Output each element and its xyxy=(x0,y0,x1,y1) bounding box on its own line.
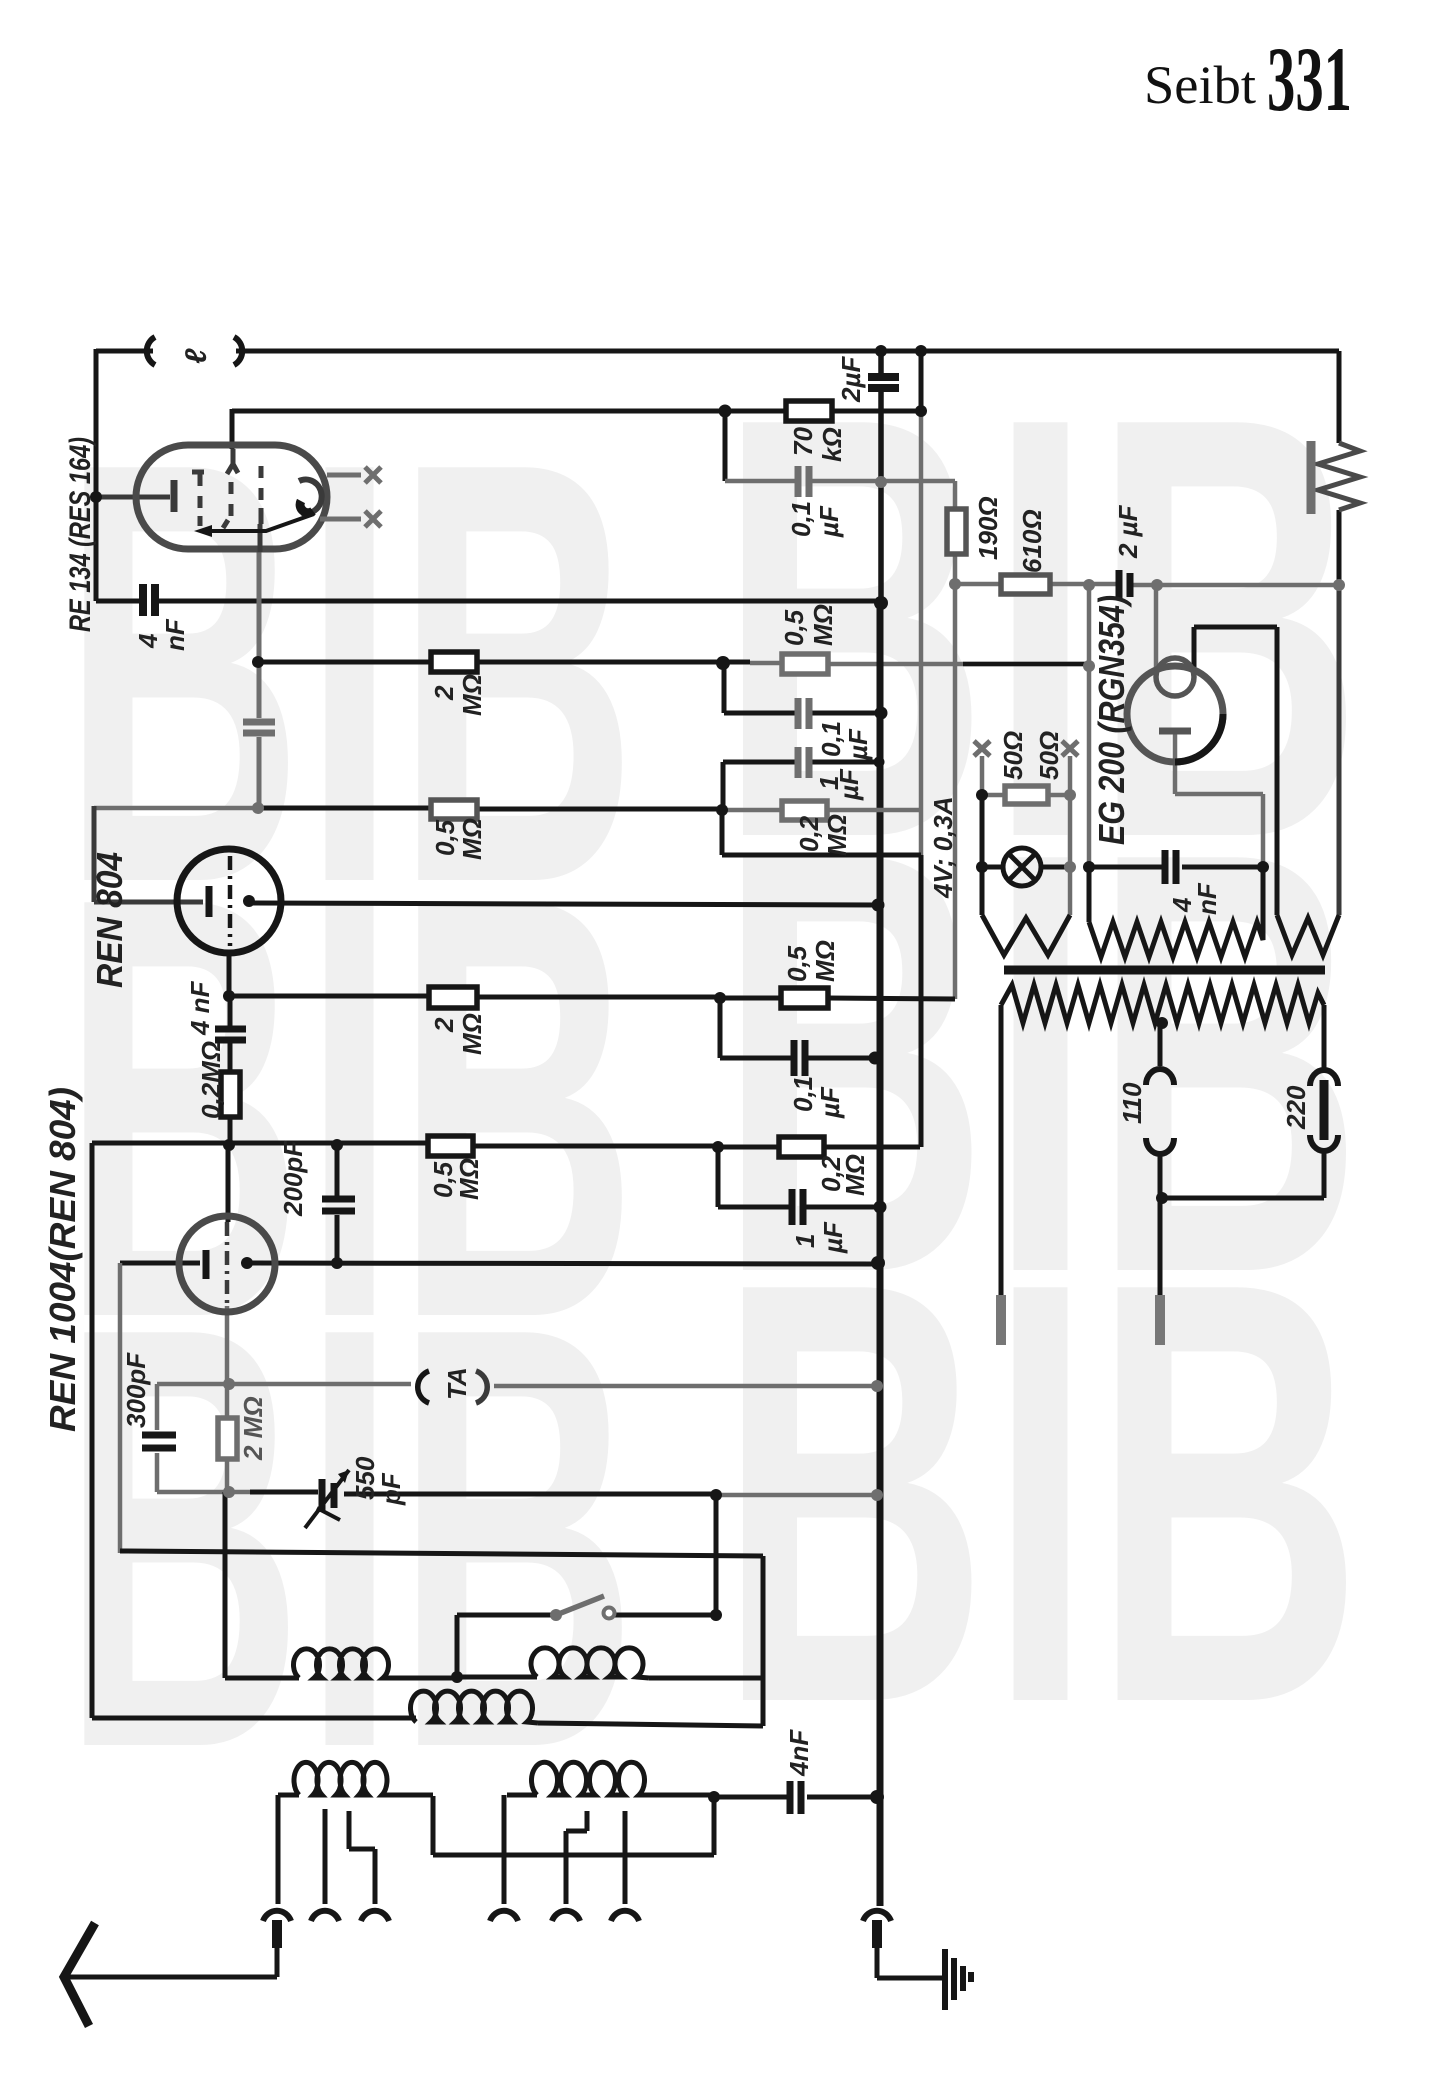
RE134 grid 3 dashed xyxy=(260,466,261,552)
X pin mark upper xyxy=(365,467,381,483)
wire 220 branch x=1324 xyxy=(1322,1005,1327,1068)
resistor 0.5M box row1146 xyxy=(428,1136,473,1156)
wire antenna coupling row y=1722 xyxy=(92,1143,416,1718)
svg-text:2µF: 2µF xyxy=(836,356,866,403)
wire 300pF branch x=157 gray xyxy=(155,1384,160,1492)
svg-text:µF: µF xyxy=(818,1221,848,1254)
wire left vertical x=96 xyxy=(94,349,99,601)
wire grid row RE134 y=411 xyxy=(232,409,921,414)
speaker resistor zigzag top right xyxy=(1318,443,1360,510)
svg-text:0,1: 0,1 xyxy=(786,501,816,537)
wire branch x=720 xyxy=(718,998,723,1058)
EG200 anode bar xyxy=(1159,728,1191,735)
plug 110 top arc xyxy=(1146,1069,1174,1085)
svg-text:MΩ: MΩ xyxy=(457,1013,487,1055)
watermark BIB background xyxy=(62,293,1363,1873)
transformer core bar xyxy=(1004,966,1325,975)
capacitor 0.1uF upper plates xyxy=(798,466,809,497)
svg-text:µF: µF xyxy=(843,728,873,761)
svg-text:µF: µF xyxy=(834,768,864,801)
svg-text:50Ω: 50Ω xyxy=(1034,731,1064,780)
right shunt zigzag xyxy=(1277,915,1339,955)
svg-text:TA: TA xyxy=(442,1367,472,1400)
wire lamp row y=867 xyxy=(982,865,1070,870)
wire screen vertical x=258 gray xyxy=(257,549,262,806)
osc coil right xyxy=(531,1648,649,1678)
svg-text:ℓ: ℓ xyxy=(180,348,213,364)
wire 0.1uF lower row y=1058 xyxy=(720,1056,875,1061)
resistor 2M box row662 xyxy=(431,652,477,672)
svg-text:MΩ: MΩ xyxy=(840,1154,870,1196)
REN804 grid dash-dot xyxy=(228,856,233,946)
wire REN1004 anode row y=1263 xyxy=(249,1263,878,1264)
capacitor 0.1uF lower plates xyxy=(794,1040,805,1076)
transformer primary zigzag xyxy=(1001,985,1324,1023)
resistor 190 box xyxy=(947,509,966,554)
antenna plug pin xyxy=(272,1920,282,1948)
wire 110 to junction xyxy=(1158,1153,1163,1198)
wire grid-leak row y=808 gray left xyxy=(94,806,258,811)
wire HT bus thick x=880 xyxy=(877,604,884,1906)
wire x=921 vertical xyxy=(919,351,924,412)
svg-text:1: 1 xyxy=(790,1234,820,1248)
wire 0.1uF upper row y=481 xyxy=(725,479,955,484)
tube REN804 envelope xyxy=(177,849,281,953)
svg-text:BIB: BIB xyxy=(62,1203,637,1873)
wire EG200 heater left lead x=1156 xyxy=(1154,585,1159,668)
wire x=722 branch xyxy=(720,810,725,855)
tube REN1004 envelope xyxy=(179,1216,275,1312)
wire RE134 grid lead x=232 xyxy=(230,409,235,449)
svg-text:REN 804: REN 804 xyxy=(89,852,130,988)
RE134 anode hook xyxy=(299,479,322,513)
wire switch row y=1615 xyxy=(457,1495,716,1677)
wire REN1004 grid bottom x=227 gray xyxy=(225,1306,230,1384)
wire x=1089 vertical gray xyxy=(1087,585,1092,867)
svg-text:µF: µF xyxy=(814,505,844,538)
capacitor 1uF upper plates xyxy=(798,747,809,778)
wire 4nF row y=601 xyxy=(96,599,881,604)
REN804 cathode bar xyxy=(206,886,213,917)
X pin mark lower xyxy=(365,511,381,527)
svg-text:2 µF: 2 µF xyxy=(1113,504,1143,559)
svg-text:4 nF: 4 nF xyxy=(185,980,215,1036)
svg-text:MΩ: MΩ xyxy=(457,818,487,860)
wire x=921 vertical low xyxy=(919,855,924,1147)
wire antenna lead xyxy=(66,1946,277,1977)
resistor 2M box row997 xyxy=(429,987,477,1008)
svg-text:2 MΩ: 2 MΩ xyxy=(238,1396,268,1461)
wire EG200 anode lead xyxy=(1175,733,1263,867)
wire mains mid terminal xyxy=(1158,1198,1163,1300)
wire osc coil row y=1678 xyxy=(225,1492,763,1678)
REN1004 anode dot xyxy=(241,1257,253,1269)
svg-text:2: 2 xyxy=(429,1017,459,1033)
tube name labels xyxy=(42,437,1132,1432)
antenna coil right xyxy=(532,1762,654,1795)
resistor 2M vertical box gray xyxy=(218,1418,237,1459)
resistor 0.5M box row808 xyxy=(431,800,477,819)
wire tuning row y=1493 xyxy=(157,1490,250,1495)
variable capacitor 550pF plates xyxy=(322,1479,334,1512)
svg-text:50Ω: 50Ω xyxy=(998,731,1028,780)
svg-text:0,2MΩ: 0,2MΩ xyxy=(196,1041,226,1119)
svg-text:0,1: 0,1 xyxy=(788,1076,818,1112)
wire 0.1uF mid row y=713 xyxy=(724,711,795,716)
svg-text:200pF: 200pF xyxy=(278,1140,308,1217)
resistor 0.2M vertical box xyxy=(221,1072,240,1117)
wire heater row y=855 xyxy=(722,853,921,858)
wire top right corner x=1339 xyxy=(1337,351,1342,585)
X mark 50ohm right xyxy=(1062,741,1078,756)
plug 110 bottom arc xyxy=(1146,1138,1174,1154)
EG200 heater loop xyxy=(1156,658,1194,696)
antenna input coupler arcs xyxy=(147,337,155,365)
wire 4nF EG row y=867 xyxy=(1089,865,1263,870)
capacitor 4nF RE134 plates xyxy=(143,584,155,616)
wire REN1004 cathode y=1263 xyxy=(120,1261,200,1266)
REN1004 grid dash-dot xyxy=(225,1222,230,1306)
wire 1uF upper row y=762 xyxy=(723,760,879,765)
wire 190ohm vertical x=955 xyxy=(953,481,958,999)
capacitor 2uF right plates xyxy=(1119,570,1130,600)
wire coil taps xyxy=(325,1795,625,1904)
wire 2M grid leak leads x=227 gray xyxy=(225,1384,230,1492)
REN1004 cathode bar xyxy=(203,1250,210,1279)
antenna coil left xyxy=(294,1762,393,1795)
RE134 cathode bar xyxy=(171,480,178,512)
wire 1uF branch x=723 xyxy=(721,762,726,810)
wire EG200 heater right loop xyxy=(1194,627,1277,915)
wire 0.2M row y=810 gray xyxy=(722,808,920,813)
tube EG200 envelope xyxy=(1127,666,1223,762)
svg-text:REN 1004(REN 804): REN 1004(REN 804) xyxy=(42,1087,83,1432)
title Seibt 331 xyxy=(1144,28,1352,130)
svg-text:300pF: 300pF xyxy=(121,1352,151,1428)
svg-text:610Ω: 610Ω xyxy=(1017,509,1047,573)
wire REN804 grid lead x=229 xyxy=(227,953,232,996)
wire 2M row gray part y=663 xyxy=(750,663,1089,664)
wire x=921 vertical gray mid xyxy=(919,412,924,855)
svg-text:MΩ: MΩ xyxy=(810,940,840,982)
resistor 0.2M box row1147 xyxy=(779,1137,824,1157)
svg-text:0,5: 0,5 xyxy=(430,819,460,856)
resistor 610 box xyxy=(1001,575,1050,594)
capacitor 1uF lower plates xyxy=(792,1189,803,1225)
wire 70k branch vertical x=725 xyxy=(723,411,728,481)
osc coil left xyxy=(294,1649,392,1678)
RE134 grid 2 dash-dot xyxy=(223,449,238,528)
svg-text:0,1: 0,1 xyxy=(816,721,846,757)
svg-text:µF: µF xyxy=(815,1086,845,1119)
RE134 filament line with arrow xyxy=(204,514,314,531)
svg-text:190Ω: 190Ω xyxy=(973,496,1003,560)
plug 220 bottom arc xyxy=(1310,1135,1338,1151)
antenna coupling coil xyxy=(411,1691,538,1723)
lamp circle xyxy=(1003,848,1041,886)
X mark 50ohm left xyxy=(974,741,990,756)
capacitor 300pF plates xyxy=(142,1435,176,1448)
wire earth lead xyxy=(877,1946,942,1978)
wire 0.5M long row end y=666 xyxy=(963,662,1089,667)
resistor 0.5M box row664 xyxy=(782,654,828,674)
speaker resistor bar xyxy=(1307,441,1316,514)
wire 200pF branch x=337 xyxy=(335,1145,340,1263)
svg-text:nF: nF xyxy=(160,618,190,651)
wire HT bus x=881 xyxy=(878,351,884,604)
RE134 grid 1 dashed xyxy=(192,472,204,526)
wire antenna coil top y=1796 xyxy=(278,1795,714,1855)
svg-text:MΩ: MΩ xyxy=(454,1158,484,1200)
capacitor 2uF top plates xyxy=(868,377,899,388)
svg-text:nF: nF xyxy=(1192,882,1222,915)
svg-text:220: 220 xyxy=(1281,1085,1311,1130)
wire REN1004 grid lead x=228 xyxy=(226,1145,231,1222)
wire antenna drop x=278 xyxy=(276,1795,281,1904)
plug 220 pin xyxy=(1320,1080,1329,1140)
svg-text:MΩ: MΩ xyxy=(457,674,487,716)
wire 0.1uF mid branch x=724 xyxy=(722,663,727,713)
svg-text:110: 110 xyxy=(1117,1082,1147,1124)
capacitor 4nF bottom plates xyxy=(790,1781,801,1814)
capacitor screen 4nF plates xyxy=(243,722,275,733)
wire RE134 cathode y=497 xyxy=(96,495,170,500)
wire branch x=718 xyxy=(716,1147,721,1207)
svg-text:MΩ: MΩ xyxy=(808,604,838,646)
svg-text:kΩ: kΩ xyxy=(817,427,847,462)
antenna arrow xyxy=(64,1923,95,2026)
lamp shunt zigzag xyxy=(982,915,1070,955)
wire x=1089 to field coil xyxy=(1089,867,1263,922)
wire 50ohm row y=795 xyxy=(982,793,1070,798)
wire top bus y=351 xyxy=(96,349,1339,354)
wire TA row y=1385 gray xyxy=(157,1384,877,1386)
REN804 anode dot xyxy=(243,895,255,907)
wire cathode loop x=94 xyxy=(94,806,203,902)
svg-text:pF: pF xyxy=(376,1472,406,1506)
svg-text:4nF: 4nF xyxy=(784,1729,814,1777)
capacitor 4nF EG plates xyxy=(1165,850,1176,884)
svg-text:4V; 0,3A: 4V; 0,3A xyxy=(928,796,958,899)
wire lamp verticals xyxy=(980,795,985,915)
svg-text:331: 331 xyxy=(1267,28,1352,130)
wire center tap x=1160 xyxy=(1158,1023,1163,1066)
capacitor 4nF REN804 plates xyxy=(215,1029,246,1040)
field coil zigzag xyxy=(1089,922,1263,957)
resistor 50ohm box xyxy=(1005,786,1048,804)
capacitor 0.1uF mid plates xyxy=(798,698,809,729)
wire 4nF bottom row y=1797 xyxy=(714,1795,877,1800)
capacitor 200pF plates xyxy=(322,1199,355,1211)
svg-text:4: 4 xyxy=(133,633,163,649)
wire 2M second row y=997 xyxy=(229,996,955,999)
wire 220 return xyxy=(1160,1152,1324,1198)
wire cathode drop x=121 gray xyxy=(118,1263,123,1553)
wire 610ohm row y=584 xyxy=(955,584,1339,585)
550pF arrow xyxy=(305,1470,349,1528)
svg-text:MΩ: MΩ xyxy=(822,814,852,856)
RE134 filament wires to pins xyxy=(320,475,361,519)
switch lever xyxy=(556,1596,604,1615)
svg-text:RE 134 (RES 164): RE 134 (RES 164) xyxy=(64,437,97,632)
tube RE134 envelope xyxy=(136,445,327,549)
wire REN804 anode row y=904 xyxy=(249,903,878,905)
svg-text:70: 70 xyxy=(788,427,818,456)
svg-text:0,2: 0,2 xyxy=(794,815,824,852)
wire mains left terminal x=1001 xyxy=(999,1005,1004,1300)
TA jack arcs xyxy=(418,1371,429,1403)
wire REN804 column 4nF/0.2M x=230 xyxy=(228,996,233,1145)
component value labels (rotated) xyxy=(121,348,1311,1777)
resistor 70k box xyxy=(786,401,832,421)
svg-text:Seibt: Seibt xyxy=(1144,55,1256,115)
svg-text:EG 200 (RGN354): EG 200 (RGN354) xyxy=(1091,595,1132,845)
socket arcs row xyxy=(263,1911,291,1921)
svg-text:2: 2 xyxy=(429,685,459,701)
resistor 0.5M box row998 xyxy=(781,988,828,1008)
wire x=1339 lower xyxy=(1337,585,1342,915)
plug 220 top arc xyxy=(1310,1070,1338,1086)
wire grid-leak row y=809 xyxy=(258,808,722,809)
svg-text:0,5: 0,5 xyxy=(779,609,809,646)
ground symbol xyxy=(942,1949,948,2010)
wire grid row REN1004 y=1145 xyxy=(92,1143,920,1147)
svg-text:0,5: 0,5 xyxy=(782,945,812,982)
wire reaction row y=1553 xyxy=(120,1551,763,1726)
earth plug pin xyxy=(872,1920,882,1948)
wire 1uF lower row y=1207 xyxy=(718,1205,880,1210)
resistor 0.2M box row810 xyxy=(782,801,827,820)
wire 2M row y=662 xyxy=(258,660,750,665)
wire lamp X leads xyxy=(982,756,1070,795)
